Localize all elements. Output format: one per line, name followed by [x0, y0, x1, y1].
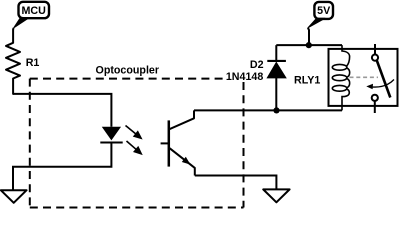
svg-text:R1: R1	[26, 57, 40, 69]
svg-text:1N4148: 1N4148	[226, 71, 263, 83]
svg-text:MCU: MCU	[22, 5, 47, 17]
svg-text:5V: 5V	[317, 5, 331, 17]
svg-text:Optocoupler: Optocoupler	[96, 65, 160, 77]
svg-text:D2: D2	[250, 59, 264, 71]
svg-text:RLY1: RLY1	[294, 74, 320, 86]
